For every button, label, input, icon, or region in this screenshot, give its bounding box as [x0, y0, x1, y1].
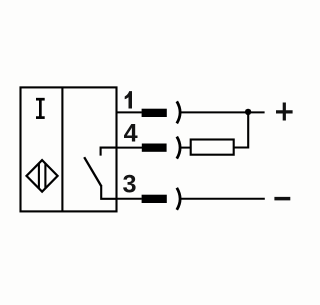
wire pin3 to minus — [180, 198, 264, 200]
wire pin3 stub — [117, 198, 142, 200]
plus terminal — [276, 103, 293, 121]
sensor body outline U1 — [21, 87, 117, 211]
load resistor R1 — [191, 140, 234, 155]
wire pin1 stub — [117, 111, 142, 113]
svg-text:3: 3 — [122, 170, 136, 198]
wire load to junction — [234, 112, 249, 147]
connector arc pin4 — [177, 137, 180, 159]
wire pin4 to load — [180, 147, 190, 149]
connector arc pin3 — [177, 188, 180, 210]
diamond inner chord right — [44, 163, 46, 188]
junction node dot — [245, 109, 251, 115]
wire pin1 to plus — [180, 111, 264, 113]
minus terminal — [274, 197, 290, 201]
cable bar pin1 — [142, 109, 167, 117]
switch S1 lever — [84, 157, 101, 186]
inductive proximity sensor symbol (diamond) — [27, 160, 58, 192]
switch S1 moving contact wire (pin 3 side) — [101, 185, 116, 199]
letter I (inductive function mark) — [36, 99, 45, 117]
sensor body divider — [61, 87, 63, 211]
wire pin4 stub — [117, 147, 143, 149]
diamond inner chord left — [38, 163, 40, 189]
cable bar pin3 — [142, 195, 167, 203]
cable bar pin4 — [142, 144, 167, 152]
switch S1 fixed contact wire (pin 4 side) — [101, 148, 117, 156]
pin label 1 — [125, 91, 132, 108]
connector arc pin1 — [177, 101, 180, 123]
svg-text:4: 4 — [124, 120, 138, 148]
